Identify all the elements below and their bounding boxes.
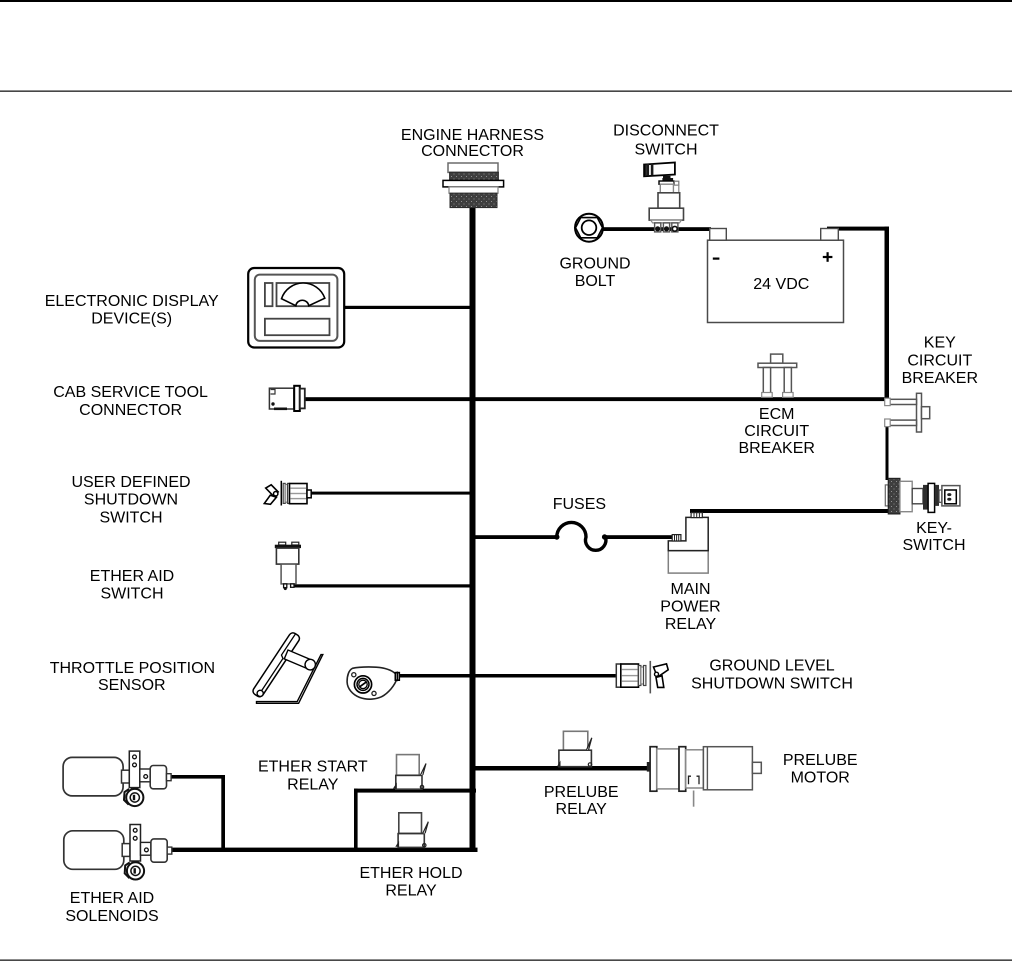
svg-text:ETHER AID: ETHER AID xyxy=(70,890,154,907)
label: KEY CIRCUIT BREAKER xyxy=(902,334,978,387)
main power relay xyxy=(668,513,708,574)
ether hold relay xyxy=(395,813,428,848)
svg-text:SOLENOIDS: SOLENOIDS xyxy=(65,908,158,925)
wire: battery down to key circuit breaker xyxy=(885,227,890,404)
throttle position sensor body xyxy=(347,667,399,699)
svg-text:BOLT: BOLT xyxy=(575,273,616,290)
svg-text:SHUTDOWN: SHUTDOWN xyxy=(84,491,178,508)
svg-text:RELAY: RELAY xyxy=(385,883,437,900)
svg-text:MOTOR: MOTOR xyxy=(791,770,850,787)
wire: prelube branch xyxy=(475,766,650,771)
wire: battery positive lead xyxy=(827,227,889,231)
label: GROUND BOLT xyxy=(559,256,630,291)
wire: throttle sensor to ground level switch run xyxy=(399,674,617,678)
svg-text:MAIN: MAIN xyxy=(671,581,711,598)
svg-text:SWITCH: SWITCH xyxy=(634,141,697,158)
label: ECM CIRCUIT BREAKER xyxy=(738,406,814,457)
svg-text:CONNECTOR: CONNECTOR xyxy=(421,143,524,160)
svg-text:DEVICE(S): DEVICE(S) xyxy=(91,311,172,328)
label: KEY-SWITCH xyxy=(902,520,965,554)
prelube motor xyxy=(647,747,762,807)
svg-text:SHUTDOWN SWITCH: SHUTDOWN SWITCH xyxy=(691,675,853,692)
wire: ether aid switch branch xyxy=(291,584,470,587)
svg-text:ENGINE HARNESS: ENGINE HARNESS xyxy=(401,127,544,144)
wire: ground bolt to battery negative xyxy=(603,227,711,231)
svg-text:POWER: POWER xyxy=(660,599,720,616)
wire: solenoids bottom run xyxy=(171,848,478,852)
svg-text:24 VDC: 24 VDC xyxy=(753,276,809,293)
svg-text:USER DEFINED: USER DEFINED xyxy=(71,474,190,491)
svg-text:BREAKER: BREAKER xyxy=(902,370,978,387)
user defined shutdown switch xyxy=(264,481,311,506)
label: ETHER START RELAY xyxy=(258,759,368,794)
svg-text:GROUND: GROUND xyxy=(559,256,630,273)
wire: upper solenoid branch xyxy=(171,775,225,779)
svg-text:BREAKER: BREAKER xyxy=(738,440,814,457)
svg-text:PRELUBE: PRELUBE xyxy=(783,752,858,769)
label: ELECTRONIC DISPLAY DEVICE(S) xyxy=(45,293,219,328)
wire: fuse to main power relay segment xyxy=(604,535,673,539)
label: CAB SERVICE TOOL CONNECTOR xyxy=(53,384,208,419)
svg-text:CAB SERVICE TOOL: CAB SERVICE TOOL xyxy=(53,384,208,401)
svg-text:CIRCUIT: CIRCUIT xyxy=(744,423,809,440)
wire: fuse feed left segment xyxy=(475,535,557,539)
cab service tool connector xyxy=(269,386,304,411)
key circuit breaker xyxy=(885,393,930,432)
label: DISCONNECT SWITCH xyxy=(613,123,719,159)
svg-text:FUSES: FUSES xyxy=(553,496,606,513)
wire: main power relay to key switch xyxy=(690,509,889,513)
svg-text:CONNECTOR: CONNECTOR xyxy=(79,402,182,419)
ether start relay xyxy=(393,755,426,790)
label: MAIN POWER RELAY xyxy=(660,581,720,633)
wire: ether start relay baseline xyxy=(354,789,476,793)
label: ETHER AID SWITCH xyxy=(90,568,174,603)
fuses symbol xyxy=(554,522,607,550)
ether aid switch xyxy=(275,542,301,590)
svg-text:ETHER AID: ETHER AID xyxy=(90,568,174,585)
ground level shutdown switch xyxy=(616,661,668,694)
wire: cab service tool / ECM breaker run xyxy=(304,397,889,401)
label: GROUND LEVEL SHUTDOWN SWITCH xyxy=(691,658,853,693)
svg-text:ETHER HOLD: ETHER HOLD xyxy=(359,865,462,882)
label: ETHER HOLD RELAY xyxy=(359,865,462,900)
svg-text:ELECTRONIC DISPLAY: ELECTRONIC DISPLAY xyxy=(45,293,219,310)
label: ENGINE HARNESS CONNECTOR xyxy=(401,127,544,160)
svg-text:SWITCH: SWITCH xyxy=(99,509,162,526)
svg-text:ECM: ECM xyxy=(759,406,795,423)
svg-text:CIRCUIT: CIRCUIT xyxy=(907,352,972,369)
svg-text:DISCONNECT: DISCONNECT xyxy=(613,123,719,140)
svg-text:PRELUBE: PRELUBE xyxy=(544,784,619,801)
electronic display device xyxy=(248,268,344,348)
label: THROTTLE POSITION SENSOR xyxy=(50,660,215,694)
wire: upper solenoid drop vertical xyxy=(221,775,225,850)
throttle pedal xyxy=(251,631,322,703)
label: USER DEFINED SHUTDOWN SWITCH xyxy=(71,474,190,527)
ether aid solenoid 2 xyxy=(64,825,172,880)
ether aid solenoid 1 xyxy=(63,751,171,806)
wire: ether relay box left vertical xyxy=(354,789,358,851)
svg-text:THROTTLE POSITION: THROTTLE POSITION xyxy=(50,660,215,677)
svg-text:KEY-: KEY- xyxy=(916,520,952,537)
key switch xyxy=(885,478,960,514)
svg-text:SENSOR: SENSOR xyxy=(98,677,166,694)
label: PRELUBE MOTOR xyxy=(783,752,858,787)
prelube relay xyxy=(557,731,592,766)
svg-text:SWITCH: SWITCH xyxy=(902,537,965,554)
svg-text:RELAY: RELAY xyxy=(556,801,608,818)
svg-text:GROUND LEVEL: GROUND LEVEL xyxy=(709,658,834,675)
wire: main harness trunk vertical xyxy=(470,206,476,852)
label: PRELUBE RELAY xyxy=(544,784,619,818)
svg-text:SWITCH: SWITCH xyxy=(100,586,163,603)
engine harness connector xyxy=(443,163,504,208)
svg-text:RELAY: RELAY xyxy=(287,776,339,793)
ground bolt xyxy=(575,214,603,242)
label: ETHER AID SOLENOIDS xyxy=(65,890,158,925)
disconnect switch xyxy=(644,163,683,232)
wire: key breaker to key switch vertical xyxy=(886,424,889,480)
svg-text:KEY: KEY xyxy=(924,334,956,351)
ECM circuit breaker xyxy=(758,354,797,397)
svg-text:RELAY: RELAY xyxy=(665,616,717,633)
battery 24 VDC xyxy=(708,229,844,323)
wire: user defined shutdown switch branch xyxy=(311,492,470,495)
svg-text:ETHER START: ETHER START xyxy=(258,759,368,776)
wire: display device branch xyxy=(344,306,470,309)
